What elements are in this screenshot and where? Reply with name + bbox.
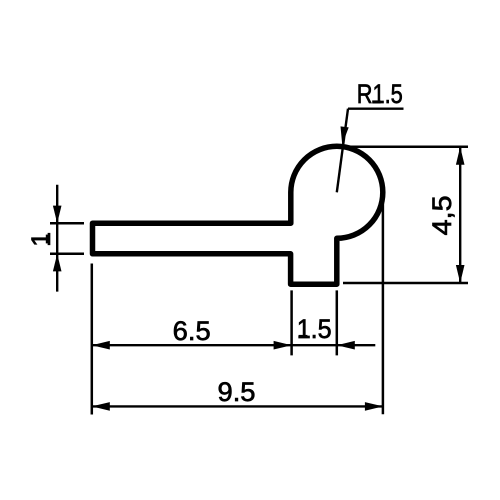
dimension 4.5 : arrow down [456, 265, 465, 283]
dimension 4.5 : dimension line vertical [459, 147, 461, 283]
svg-text:1: 1 [26, 232, 56, 247]
radius leader R1.5 : arrowhead on arc [341, 126, 349, 144]
dimension 9.5 : arrow left [92, 402, 110, 411]
svg-text:1.5: 1.5 [297, 314, 332, 344]
dimension 1 : foot serif of digit 1 [46, 235, 49, 244]
dimension 9.5 : dimension line horizontal [92, 405, 383, 407]
dimension 1.5 : arrow outside right [337, 341, 355, 350]
dimension 1.5 : foot serif of digit 1 [299, 335, 308, 338]
radius leader R1.5 : horizontal segment [348, 107, 404, 109]
svg-text:6.5: 6.5 [173, 316, 211, 346]
dimension 6.5 : arrow right [274, 341, 292, 350]
dimension 1 : extension tick bottom [50, 253, 84, 256]
dimension 4.5 : extension line top [347, 146, 468, 149]
dimension 1 : dimension line vertical [56, 185, 58, 292]
dimension 6.5/1.5 : extension line foot-right [336, 290, 339, 355]
dimension 4.5 : arrow up [456, 147, 465, 165]
dimension 1 : arrow down [53, 206, 62, 224]
dimension 9.5 : extension line right [382, 192, 385, 414]
dimension 6.5/1.5 : dimension line horizontal [92, 344, 376, 346]
dimension 1 : arrow up [53, 254, 62, 272]
dimension 9.5 : arrow right [365, 402, 383, 411]
radius leader R1.5 : foot serif of digit 1 [372, 100, 380, 103]
svg-text:R1.5: R1.5 [357, 79, 403, 109]
dimension 6.5/1.5 : extension line left [91, 264, 94, 415]
radius leader R1.5 : slanted segment to circle centre [337, 109, 348, 193]
svg-text:4,5: 4,5 [427, 195, 457, 235]
dimension 6.5/1.5 : extension line foot-left [290, 290, 293, 355]
dimension 6.5 : arrow left [92, 341, 110, 350]
dimension 1 : extension tick top [50, 222, 84, 225]
dimension 4.5 : extension line bottom [343, 282, 468, 285]
svg-text:9.5: 9.5 [218, 377, 256, 407]
profile outline (seal cross-section with bulb) [93, 146, 383, 284]
